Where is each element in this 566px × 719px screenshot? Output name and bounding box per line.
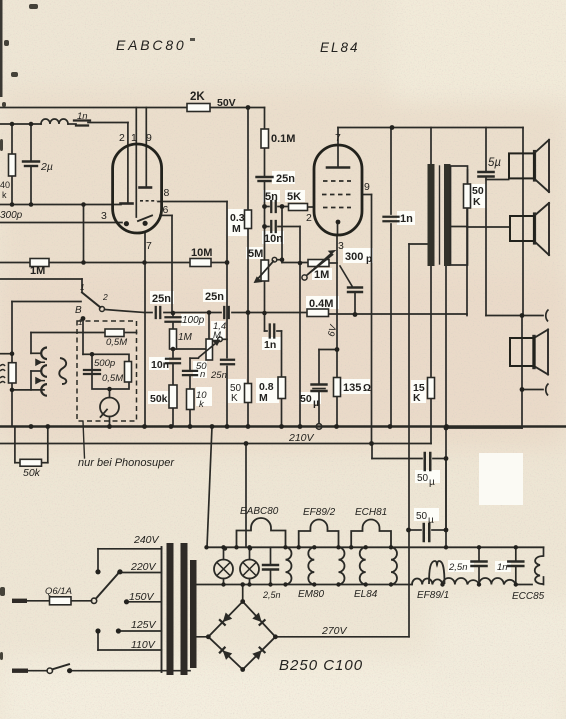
svg-text:M: M <box>213 330 221 341</box>
svg-text:270V: 270V <box>321 625 348 637</box>
svg-text:1n: 1n <box>400 213 413 225</box>
svg-text:p: p <box>366 254 372 265</box>
svg-text:50V: 50V <box>217 97 236 109</box>
svg-text:3: 3 <box>101 210 107 222</box>
svg-text:300: 300 <box>345 251 363 263</box>
svg-text:220V: 220V <box>130 561 157 573</box>
svg-text:25n: 25n <box>152 293 171 305</box>
svg-text:6: 6 <box>163 204 169 216</box>
svg-text:9: 9 <box>146 132 152 144</box>
svg-text:50k: 50k <box>23 467 41 479</box>
svg-text:EABC80: EABC80 <box>240 506 279 517</box>
svg-text:EL84: EL84 <box>320 40 360 55</box>
svg-text:1M: 1M <box>314 269 329 281</box>
svg-text:EABC80: EABC80 <box>116 37 187 53</box>
svg-text:B250 C100: B250 C100 <box>279 657 363 674</box>
svg-text:50k: 50k <box>150 393 168 405</box>
svg-text:50: 50 <box>416 511 428 522</box>
svg-text:2µ: 2µ <box>40 161 53 173</box>
svg-text:8: 8 <box>164 187 170 199</box>
svg-text:2: 2 <box>306 212 312 224</box>
svg-text:0.4M: 0.4M <box>309 298 333 310</box>
svg-text:1M: 1M <box>178 332 193 343</box>
svg-text:1: 1 <box>131 132 137 144</box>
svg-text:7: 7 <box>146 240 152 252</box>
svg-text:Ω: Ω <box>363 383 371 394</box>
svg-text:10n: 10n <box>151 359 169 371</box>
svg-text:0,5M: 0,5M <box>106 337 127 348</box>
svg-text:5µ: 5µ <box>488 157 501 169</box>
svg-text:nur bei Phonosuper: nur bei Phonosuper <box>78 457 175 469</box>
svg-text:1n: 1n <box>264 339 276 351</box>
svg-text:EF89/1: EF89/1 <box>417 590 449 601</box>
svg-text:ECH81: ECH81 <box>355 507 387 518</box>
svg-text:10n: 10n <box>264 233 283 245</box>
svg-text:5n: 5n <box>265 191 278 203</box>
svg-text:k: k <box>2 190 7 200</box>
svg-text:K: K <box>231 393 238 404</box>
svg-text:50: 50 <box>417 473 429 484</box>
svg-text:125V: 125V <box>131 619 157 631</box>
svg-text:25n: 25n <box>276 173 295 185</box>
svg-text:2,5n: 2,5n <box>262 590 281 600</box>
svg-text:EM80: EM80 <box>298 589 325 600</box>
svg-text:1: 1 <box>78 318 82 327</box>
svg-text:1n: 1n <box>497 562 508 573</box>
svg-text:Q6/1A: Q6/1A <box>45 586 72 597</box>
svg-text:100p: 100p <box>182 315 205 326</box>
svg-text:0,5M: 0,5M <box>102 373 123 384</box>
svg-text:ECC85: ECC85 <box>512 591 545 602</box>
svg-text:150V: 150V <box>129 591 155 603</box>
svg-text:EL84: EL84 <box>354 589 378 600</box>
svg-text:1n: 1n <box>77 111 88 122</box>
svg-text:2: 2 <box>119 132 125 144</box>
svg-text:EF89/2: EF89/2 <box>303 507 336 518</box>
svg-text:µ: µ <box>428 515 434 526</box>
svg-text:1M: 1M <box>30 265 45 277</box>
svg-text:135: 135 <box>343 382 361 394</box>
svg-text:50: 50 <box>300 393 312 405</box>
svg-text:1: 1 <box>80 282 85 292</box>
svg-text:5K: 5K <box>287 191 301 203</box>
svg-text:240V: 240V <box>133 534 160 546</box>
svg-text:n: n <box>200 369 205 380</box>
svg-text:110V: 110V <box>131 639 156 651</box>
svg-text:K: K <box>413 392 421 404</box>
svg-text:M: M <box>232 223 241 235</box>
svg-text:M: M <box>259 392 268 404</box>
svg-text:2: 2 <box>102 292 108 302</box>
svg-text:5M: 5M <box>248 248 263 260</box>
svg-text:10M: 10M <box>191 247 212 259</box>
svg-text:40: 40 <box>0 180 10 190</box>
svg-text:3: 3 <box>338 240 344 252</box>
svg-text:9: 9 <box>364 181 370 193</box>
svg-text:µ: µ <box>429 477 435 488</box>
svg-text:300p: 300p <box>0 210 23 221</box>
svg-text:2,5n: 2,5n <box>448 562 468 573</box>
svg-text:7: 7 <box>335 132 341 144</box>
svg-text:210V: 210V <box>288 432 315 444</box>
svg-text:µ: µ <box>313 397 319 409</box>
svg-text:0.1M: 0.1M <box>271 133 295 145</box>
svg-text:K: K <box>473 196 481 208</box>
svg-text:25n: 25n <box>210 370 227 381</box>
svg-text:500p: 500p <box>94 358 115 369</box>
svg-text:2K: 2K <box>190 91 205 103</box>
svg-text:B: B <box>75 305 82 316</box>
svg-text:25n: 25n <box>205 291 224 303</box>
